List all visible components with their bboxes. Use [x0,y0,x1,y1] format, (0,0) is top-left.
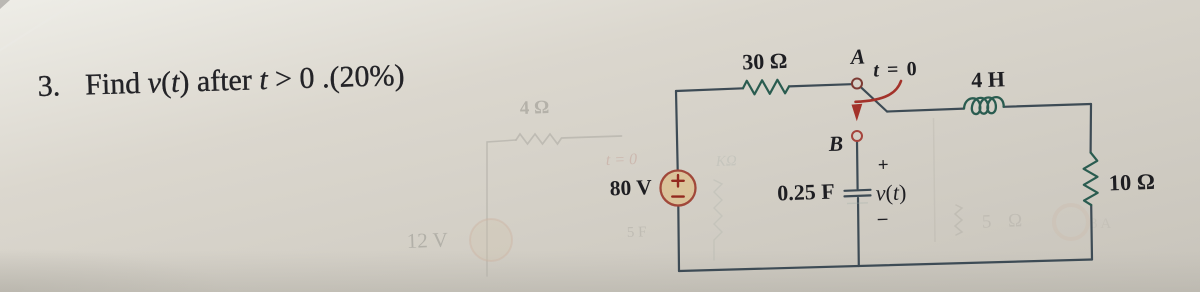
svg-text:–: – [876,208,888,229]
svg-text:+: + [877,155,889,176]
svg-text:KΩ: KΩ [715,153,738,170]
svg-text:A: A [848,45,865,70]
svg-text:5 F: 5 F [627,224,647,241]
svg-text:10 Ω: 10 Ω [1108,169,1155,196]
svg-text:t = 0: t = 0 [606,151,638,169]
svg-text:80 V: 80 V [609,175,652,200]
svg-text:v(t): v(t) [875,179,906,205]
svg-text:30 Ω: 30 Ω [742,48,788,75]
svg-text:4 H: 4 H [971,66,1005,92]
svg-text:0.25 F: 0.25 F [777,179,835,206]
svg-text:B: B [827,132,843,157]
svg-text:5 Ω: 5 Ω [982,210,1029,233]
svg-text:4 Ω: 4 Ω [519,97,549,119]
svg-text:3 A: 3 A [1090,216,1111,232]
svg-text:12 V: 12 V [406,228,448,253]
svg-text:t = 0: t = 0 [873,58,919,82]
